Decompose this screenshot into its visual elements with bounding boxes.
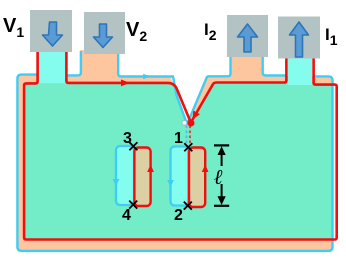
loop b: red/tan rounded rect (right pair)	[189, 148, 205, 208]
I1 contact leg (pale cyan fill)	[288, 56, 312, 85]
cyan outer loop: top-left run, left edge, bottom, right edge, top-right run	[17, 75, 332, 251]
red up-arrowhead on right pair	[202, 165, 209, 173]
label point 2	[174, 207, 183, 225]
blue up-arrow in I1	[290, 22, 309, 57]
red arrowhead sliding down notch right slope	[192, 111, 200, 120]
cyan dashed tunnel link to point 1	[186, 126, 188, 147]
X marker at point 2	[184, 202, 192, 210]
loop b: cyan rounded rect (right pair)	[171, 147, 189, 206]
dimension vertical line lower	[221, 184, 223, 199]
cyan right-arrowhead on top run	[143, 74, 150, 80]
red right-arrowhead on top run	[121, 80, 130, 87]
red dashed tunnel link to point 1	[189, 126, 191, 147]
contact square V1	[30, 10, 72, 52]
blue down-arrow in V1	[43, 22, 63, 46]
dimension bottom bar	[214, 205, 229, 207]
cyan: V1-V2 gap run and V2 left side	[67, 51, 81, 75]
loop a: cyan rounded rect (left pair)	[116, 146, 134, 205]
dimension top bar	[214, 144, 229, 146]
X marker at point 3	[129, 142, 137, 150]
small white circle at notch tip	[182, 120, 187, 125]
label point 3	[123, 130, 132, 148]
cyan: I2 right side and run to I1	[263, 54, 286, 76]
label ell	[214, 165, 223, 190]
red branch B: V1 right side, top run, notch V, to I1 left side	[66, 50, 286, 123]
dimension vertical line upper	[221, 152, 223, 166]
blue down-arrow in V2	[94, 24, 113, 48]
red branch A: V1 left side, around left-bottom-right, to I1 right side	[24, 50, 337, 240]
cyan: V2 right side, top run to notch, notch V, run to I2 left side	[118, 51, 230, 121]
X marker at point 1	[184, 143, 192, 151]
X marker at point 4	[129, 201, 137, 209]
teal nu=2 bulk body with notch	[25, 83, 332, 239]
label point 4	[122, 207, 131, 225]
contact square I2	[227, 15, 268, 57]
V1 contact leg (pale cyan fill)	[38, 50, 66, 83]
orange nu=1 band region (frame between cyan and red loops), with notch cut	[17, 75, 333, 251]
V2 contact leg (orange)	[81, 50, 120, 80]
label I2	[204, 20, 217, 43]
label V1	[3, 15, 24, 40]
contact square I1	[278, 17, 320, 59]
dimension up arrowhead	[218, 146, 226, 155]
dimension down arrowhead	[218, 196, 226, 205]
loop a: red/tan rounded rect (left pair)	[134, 148, 150, 207]
cyan down-arrowhead on left pair	[113, 179, 120, 186]
contact square V2	[84, 12, 125, 54]
label V2	[126, 19, 147, 44]
label point 1	[174, 130, 183, 148]
red up-arrowhead on left pair	[147, 165, 154, 173]
cyan down-arrowhead on right pair	[167, 180, 174, 187]
red dot at notch tip	[187, 119, 194, 126]
blue up-arrow in I2	[238, 24, 258, 52]
I2 contact leg (orange)	[230, 53, 264, 81]
label I1	[325, 25, 338, 48]
